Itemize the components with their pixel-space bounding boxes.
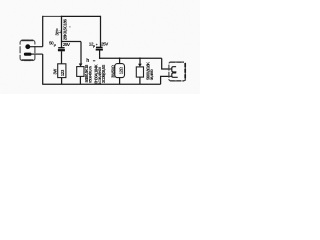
wire C2 to rail [99,51,101,59]
resistor R4 box [136,67,143,77]
wire rail to jack step down [162,58,169,69]
wire output rail [99,57,161,59]
plug P1 box [20,40,35,60]
svg-text:,,: ,, [67,26,71,28]
wire left vertical upper [42,16,44,47]
svg-text:1,;: 1,; [58,30,62,33]
svg-text:h: h [86,58,89,64]
wire left vertical lower [42,54,44,84]
capacitor C3 stub [119,58,121,63]
wire R1 to bottom rail [61,78,63,85]
node rail B+ [62,41,82,43]
svg-text:12Ω: 12Ω [119,66,124,74]
svg-text:05b8480,Kh: 05b8480,Kh [89,65,93,83]
wire branch x81 [80,42,82,64]
jack J1 box [169,62,185,81]
plug contact dot [25,44,30,49]
wire bottom rail to jack step up [161,76,169,84]
svg-text:123: 123 [60,69,65,76]
junction dots [119,57,121,59]
resistor R4 arrow [138,64,142,67]
wire R4 to bottom rail [139,77,141,84]
capacitor C1 plates [58,47,64,49]
plug contact bar [24,53,32,56]
wire plug top lead [30,46,43,48]
diode D1 box [77,67,84,77]
jack J1 contact lower [172,73,178,77]
wire C3 to bottom rail [119,78,121,85]
svg-text:28K0,5C186: 28K0,5C186 [62,18,67,40]
capacitor C2 plates [96,46,103,48]
svg-text:3C06(08,5S: 3C06(08,5S [101,64,106,83]
svg-text:3W: 3W [52,69,57,75]
svg-text:+: + [96,43,98,47]
wire D1 to bottom rail [79,76,81,84]
wire plug bottom lead [31,53,42,55]
wire right vertical from top rail [100,16,102,48]
resistor R1 box [58,64,66,78]
capacitor C3 can [115,64,125,78]
wire C1 to R1 [61,51,63,63]
wire bottom rail [42,83,160,85]
resistor R4 stub [139,58,141,64]
jack J1 entry nubs [169,68,171,70]
jack J1 contact upper [172,67,177,72]
wire choke branch vertical [61,16,63,48]
wire top rail [43,15,62,17]
svg-text:08,4880: 08,4880 [150,69,154,80]
diode D1 arrow [79,64,83,67]
